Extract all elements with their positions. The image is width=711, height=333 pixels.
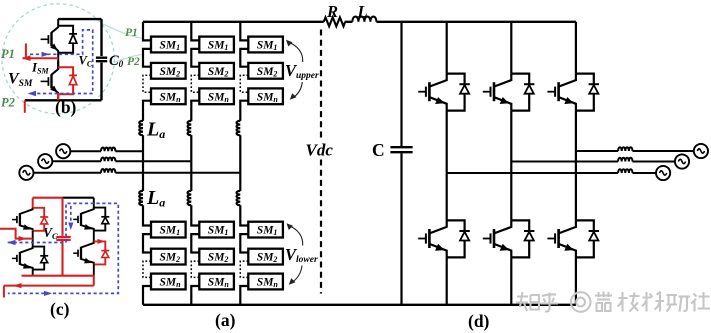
wire: DC positive top bus	[143, 21, 576, 23]
leader curve to node P1	[103, 24, 144, 39]
wire: red terminal P1 stub	[23, 44, 59, 59]
inductor phase 3 left	[101, 169, 115, 173]
detail view (b): half-bridge submodule	[1, 4, 144, 117]
AC source phase 3 right	[694, 144, 708, 158]
diode D1 upper	[58, 26, 77, 53]
IGBT G2H upper	[483, 74, 512, 111]
wire: phase 3 line left	[33, 172, 240, 174]
wire: leg 2 top bus to upper IGBT	[510, 22, 512, 74]
converter d leg 2	[483, 22, 535, 305]
svg-text:(c): (c)	[50, 299, 70, 319]
phase leg 3 lower arm	[240, 205, 283, 305]
diode G2H antiparallel	[511, 74, 534, 111]
diode G3H antiparallel	[576, 74, 599, 111]
capacitor C0 plates	[96, 58, 107, 62]
svg-text:P1: P1	[1, 47, 15, 61]
wire: leg 1 from SMn to arm inductor	[143, 101, 151, 121]
svg-text:(b): (b)	[55, 97, 77, 117]
wire: dotted continuation SM2-SMn	[191, 75, 199, 92]
wire: leg 2 middle section	[190, 135, 192, 191]
IGBT S2 lower-left	[12, 247, 33, 270]
svg-text:P2: P2	[1, 96, 15, 110]
AC grid left	[19, 144, 240, 180]
converter d leg 3	[547, 22, 599, 305]
arm inductor La lower leg 1	[139, 191, 143, 205]
arrow: ISM current into P1	[22, 55, 31, 61]
submodule SMn leg 2 lower	[199, 274, 234, 290]
wire: top rail black half	[63, 197, 94, 199]
inductor L on DC line	[352, 17, 376, 22]
inductor phase 1 left	[101, 147, 115, 151]
wire: red emitter segment to bottom rail	[57, 93, 59, 100]
arrow: red current into right diode branch	[98, 239, 106, 244]
inductor phase 2 left	[101, 157, 115, 161]
submodule SM1 leg 3 upper	[248, 37, 283, 53]
svg-text:P2: P2	[127, 56, 140, 68]
diode D2 lower (red conduction path)	[58, 67, 77, 94]
IGBT G3H upper	[547, 74, 576, 111]
wire: center capacitor branch red	[61, 198, 63, 276]
wire: leg 3 lower SMn to bottom bus	[240, 286, 248, 305]
submodule SMn leg 3 lower	[248, 274, 283, 290]
phase leg 1 upper arm	[139, 22, 185, 205]
phase leg 2 upper arm	[188, 22, 234, 205]
submodule SM2 leg 2 upper	[199, 63, 234, 79]
wire: DC negative bottom bus	[143, 304, 576, 306]
arm inductor La lower leg 2	[188, 191, 192, 205]
submodule SMn leg 1 upper	[151, 88, 186, 104]
blue dashed stub to left with arrow	[8, 242, 66, 244]
two-level converter (d)	[418, 22, 599, 331]
wire: link lower SM1-SM2	[143, 234, 151, 252]
svg-text:(a): (a)	[215, 310, 236, 330]
AC source phase 2 right	[675, 154, 689, 168]
submodule SM2 leg 2 lower	[199, 249, 234, 265]
svg-text:P1: P1	[125, 27, 138, 39]
wire: SM top rail	[58, 18, 101, 20]
arm inductor La upper leg 2	[188, 121, 192, 135]
arrow: blue path left exit to P2	[28, 91, 37, 96]
wire: leg 3 middle section	[239, 135, 241, 191]
Vdc dashed measurement line	[320, 30, 322, 294]
wire: leg 3 top bus to upper IGBT	[575, 22, 577, 74]
wire: link SM1-SM2	[143, 49, 151, 67]
submodule SMn leg 3 upper	[248, 88, 283, 104]
converter d leg 1	[418, 22, 470, 305]
wire: leg 3 midsection	[575, 111, 577, 221]
blue dashed conduction path upper	[30, 30, 93, 94]
leader curve to node P2	[113, 55, 142, 64]
diode G2L antiparallel	[511, 220, 534, 257]
wire: red terminal P2 stub	[24, 100, 26, 113]
arc arrow Vlower top	[288, 225, 303, 246]
AC source phase 2 left	[38, 154, 52, 168]
submodule SM1 leg 2 upper	[199, 37, 234, 53]
wire: leg 2 midsection	[510, 111, 512, 221]
wire: leg 1 middle section	[142, 135, 144, 191]
phase leg 3 upper arm	[237, 22, 283, 205]
wire: red output lower loop	[4, 276, 94, 298]
dc-link capacitor C branch	[400, 22, 402, 305]
wire: leg 1 midsection	[446, 111, 448, 221]
wire: leg 2 inductor to lower SM1	[191, 205, 199, 225]
phase leg 1 lower arm	[143, 205, 186, 305]
arm inductor La lower leg 3	[237, 191, 241, 205]
wire: leg 3 from top bus to SM1	[240, 22, 248, 41]
submodule SMn leg 2 upper	[199, 88, 234, 104]
submodule SM1 leg 3 lower	[248, 222, 283, 238]
wire: phase 3 line right	[576, 150, 694, 152]
wire: leg 1 top bus to upper IGBT	[446, 22, 448, 74]
diode G1L antiparallel	[447, 220, 470, 257]
wire: leg 1 from top bus to SM1	[143, 22, 151, 41]
arm inductor La upper leg 3	[237, 121, 241, 135]
wire: leg 3 lower IGBT to bottom bus	[575, 257, 577, 304]
inductor phase 3 right	[618, 147, 632, 151]
wire: dotted continuation SM2-SMn	[143, 75, 151, 92]
wire: leg 3 from SMn to arm inductor	[240, 101, 248, 121]
wire: mid vertical between switches	[57, 58, 59, 69]
arrow: red input arrowhead	[19, 236, 27, 241]
IGBT G2L lower	[483, 220, 512, 257]
arrow: red output arrowhead left	[13, 283, 22, 288]
diode D1 upper-left (red)	[33, 208, 49, 231]
AC source phase 1 right	[656, 166, 670, 180]
wire: phase 1 line right	[447, 172, 656, 174]
diode D3 upper-right (black)	[94, 208, 110, 231]
inductor phase 2 right	[618, 158, 632, 162]
wire: phase 1 line left	[70, 150, 143, 152]
IGBT T2 lower	[41, 61, 59, 100]
IGBT S1 upper-left	[12, 208, 33, 231]
svg-text:C: C	[372, 140, 385, 160]
wire: leg 1 lower SMn to bottom bus	[143, 286, 151, 305]
wire: red collector corner upper-left	[32, 198, 34, 209]
IGBT G1H upper	[418, 74, 447, 111]
capacitor C plates	[390, 147, 412, 152]
submodule SM1 leg 1 upper	[151, 37, 186, 53]
AC source phase 3 left	[19, 166, 33, 180]
wire: phase 2 line right	[511, 161, 675, 163]
wire: top rail red half	[33, 197, 63, 199]
wire: dotted continuation SM2-SMn	[240, 75, 248, 92]
wire: leg 2 from top bus to SM1	[191, 22, 199, 41]
IGBT S4 lower-right	[73, 241, 94, 264]
wire: left mid vertical	[32, 231, 34, 248]
arrow: blue path right	[42, 52, 50, 57]
wire: red bottom rail	[22, 275, 94, 277]
inductor phase 1 right	[618, 169, 632, 173]
wire: link SM1-SM2	[191, 49, 199, 67]
submodule SM2 leg 1 upper	[151, 63, 186, 79]
IGBT G3L lower	[547, 220, 576, 257]
wire: leg 2 lower SMn to bottom bus	[191, 286, 199, 305]
wire: link SM1-SM2	[240, 49, 248, 67]
arc arrow Vupper top	[287, 42, 303, 63]
wire: lower-left emitter to bottom rail	[32, 270, 34, 276]
wire: dotted continuation lower SM2-SMn	[240, 261, 248, 277]
wire: leg 1 inductor to lower SM1	[143, 205, 151, 225]
submodule SMn leg 1 lower	[151, 274, 186, 290]
wire: link lower SM1-SM2	[240, 234, 248, 252]
IGBT S3 upper-right	[73, 208, 94, 231]
wire: leg 1 lower IGBT to bottom bus	[446, 257, 448, 304]
blue dashed conduction loop around right leg	[8, 203, 119, 293]
diode D2 lower-left (black)	[33, 247, 49, 270]
IGBT G1L lower	[418, 220, 447, 257]
submodule SM2 leg 3 lower	[248, 249, 283, 265]
wire: lower-right emitter to bottom rail	[93, 264, 95, 275]
IGBT T1 upper	[41, 19, 59, 58]
diode D4 lower-right (red)	[94, 241, 110, 264]
wire: dotted continuation lower SM2-SMn	[143, 261, 151, 277]
submodule SM2 leg 1 lower	[151, 249, 186, 265]
watermark zhihu	[516, 292, 710, 312]
resistor R on DC line	[324, 17, 346, 26]
wire: SM bottom rail	[25, 99, 102, 101]
wire: red input from left	[0, 229, 33, 239]
wire: right mid vertical	[93, 231, 95, 243]
submodule SM2 leg 3 upper	[248, 63, 283, 79]
submodule SM1 leg 1 lower	[151, 222, 186, 238]
detail view (c): full-bridge submodule	[0, 198, 118, 319]
arrow: blue bottom path right	[44, 291, 52, 296]
wire: leg 2 from SMn to arm inductor	[191, 101, 199, 121]
svg-text:L: L	[357, 2, 368, 21]
AC grid right	[447, 144, 708, 180]
svg-text:Vdc: Vdc	[306, 141, 334, 160]
blue dashed inner vertical with down arrow	[70, 206, 72, 224]
wire: black collector corner upper-right	[93, 198, 95, 209]
diode G3L antiparallel	[576, 220, 599, 257]
wire: leg 2 lower IGBT to bottom bus	[510, 257, 512, 304]
wire: leg 3 inductor to lower SM1	[240, 205, 248, 225]
AC source phase 1 left	[56, 144, 70, 158]
submodule SM1 leg 2 lower	[199, 222, 234, 238]
phase leg 2 lower arm	[191, 205, 234, 305]
capacitor Vc plates (red)	[56, 237, 70, 240]
arc arrow Vupper bottom	[292, 82, 302, 98]
svg-text:(d): (d)	[468, 311, 490, 331]
arm inductor La upper leg 1	[139, 121, 143, 135]
arc arrow Vlower bottom	[291, 266, 302, 284]
wire: capacitor branch	[100, 19, 102, 100]
svg-text:R: R	[326, 2, 338, 21]
wire: phase 2 line left	[52, 160, 191, 162]
dashed highlight ellipse around submodule detail	[2, 4, 114, 114]
wire: link lower SM1-SM2	[191, 234, 199, 252]
wire: dotted continuation lower SM2-SMn	[191, 261, 199, 277]
diode G1H antiparallel	[447, 74, 470, 111]
